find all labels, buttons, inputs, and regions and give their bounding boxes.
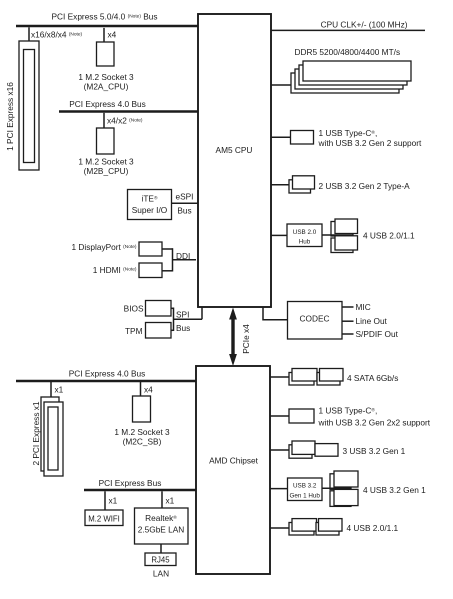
svg-text:with USB 3.2 Gen 2x2 support: with USB 3.2 Gen 2x2 support bbox=[318, 418, 431, 428]
block: RJ45 bbox=[145, 553, 176, 566]
wire: chipset to USB 3.2 hub bbox=[270, 488, 288, 490]
svg-text:SPI: SPI bbox=[176, 309, 189, 319]
wire: Line Out stub bbox=[342, 320, 354, 322]
svg-text:PCI Express 5.0/4.0 (Note) Bus: PCI Express 5.0/4.0 (Note) Bus bbox=[52, 12, 158, 22]
label: eSPI Bus bbox=[176, 192, 194, 216]
svg-text:PCI Express 4.0 Bus: PCI Express 4.0 Bus bbox=[69, 99, 146, 109]
svg-text:PCI Express 4.0 Bus: PCI Express 4.0 Bus bbox=[69, 369, 146, 379]
wire: CPU to USB Type-C bbox=[271, 136, 291, 138]
label: 1 USB Type-C with USB 3.2 Gen 2 bbox=[318, 128, 423, 148]
wire: PCIe x4 link arrow (CPU to chipset) bbox=[229, 308, 237, 367]
block: iTE Super I/O bbox=[128, 190, 172, 220]
label: 1 M.2 Socket 3 (M2A_CPU) bbox=[78, 72, 134, 92]
label: SPI Bus bbox=[176, 309, 190, 333]
svg-text:(M2A_CPU): (M2A_CPU) bbox=[84, 82, 129, 92]
block: USB 3.2 Gen 1 Hub bbox=[288, 478, 323, 501]
wire: CPU CLK line bbox=[271, 29, 425, 31]
wire: chipset to 3 USB 3.2 Gen 1 bbox=[270, 449, 290, 451]
slot: 2 PCI Express x1 bbox=[41, 397, 63, 476]
block: M.2 Socket M2C_SB bbox=[133, 396, 151, 422]
svg-text:Super I/O: Super I/O bbox=[132, 205, 168, 215]
wire: hub to USB 2.0 ports bbox=[322, 234, 354, 236]
wire: hub to USB 3.2 ports bbox=[322, 487, 352, 489]
block: 4 USB 3.2 Gen 1 ports bbox=[330, 471, 358, 506]
block: 3 USB 3.2 Gen 1 ports bbox=[289, 441, 338, 458]
wire: PCI Express bus (chipset lower) bbox=[84, 489, 196, 492]
wire: drop to PCIe x16 slot bbox=[28, 27, 30, 41]
svg-text:DDR5 5200/4800/4400 MT/s: DDR5 5200/4800/4400 MT/s bbox=[295, 47, 401, 57]
svg-text:1 M.2 Socket 3: 1 M.2 Socket 3 bbox=[78, 72, 134, 82]
block: Realtek 2.5GbE LAN bbox=[135, 508, 189, 544]
wire: CPU to USB 2.0 hub bbox=[271, 234, 287, 236]
svg-text:Gen 1 Hub: Gen 1 Hub bbox=[289, 492, 320, 499]
svg-text:with USB 3.2 Gen 2 support: with USB 3.2 Gen 2 support bbox=[318, 138, 423, 148]
svg-text:BIOS: BIOS bbox=[124, 304, 144, 314]
svg-text:1 M.2 Socket 3: 1 M.2 Socket 3 bbox=[78, 157, 134, 167]
svg-text:RJ45: RJ45 bbox=[151, 555, 170, 564]
block: 4 USB 2.0/1.1 ports (chipset) bbox=[289, 519, 342, 535]
label: 1 USB Type-C with USB 3.2 Gen 2x2 bbox=[318, 405, 431, 427]
svg-text:x1: x1 bbox=[109, 496, 118, 506]
block: USB Type-C port (CPU) bbox=[291, 131, 314, 145]
svg-text:1 M.2 Socket 3: 1 M.2 Socket 3 bbox=[114, 427, 170, 437]
svg-text:4 USB 2.0/1.1: 4 USB 2.0/1.1 bbox=[363, 231, 415, 241]
svg-text:USB 3.2: USB 3.2 bbox=[293, 483, 317, 490]
wire: MIC stub bbox=[342, 306, 354, 308]
block: 4 USB 2.0/1.1 ports bbox=[331, 219, 358, 253]
block: M.2 WIFI bbox=[85, 510, 123, 526]
svg-text:Hub: Hub bbox=[299, 238, 311, 245]
block: BIOS bbox=[146, 301, 172, 317]
svg-text:AMD Chipset: AMD Chipset bbox=[209, 455, 259, 465]
svg-text:CODEC: CODEC bbox=[300, 314, 330, 324]
svg-text:(M2C_SB): (M2C_SB) bbox=[123, 437, 162, 447]
block: USB 2.0 Hub bbox=[287, 224, 322, 247]
svg-text:1 PCI Express x16: 1 PCI Express x16 bbox=[5, 82, 15, 151]
svg-text:1 USB Type-C®,: 1 USB Type-C®, bbox=[319, 405, 378, 415]
wire: DDI bracket bbox=[162, 248, 196, 271]
label: 1 M.2 Socket 3 (M2B_CPU) bbox=[78, 157, 134, 177]
svg-text:x4: x4 bbox=[144, 385, 153, 395]
block: USB Type-C port (chipset) bbox=[289, 409, 314, 423]
block: M.2 Socket M2B_CPU bbox=[97, 128, 115, 154]
svg-text:1 USB Type-C®,: 1 USB Type-C®, bbox=[319, 128, 378, 138]
svg-text:3 USB 3.2 Gen 1: 3 USB 3.2 Gen 1 bbox=[343, 446, 406, 456]
label: iTE Super I/O bbox=[132, 194, 168, 216]
block: DisplayPort connector bbox=[139, 242, 162, 256]
wire: drop to PCIe x1 slots bbox=[50, 382, 52, 398]
block: CODEC bbox=[288, 302, 343, 340]
wire: PCIe 5.0/4.0 bus (CPU top bus) bbox=[16, 25, 198, 28]
wire: CPU to CODEC bbox=[263, 307, 288, 320]
svg-text:2 USB 3.2 Gen 2 Type-A: 2 USB 3.2 Gen 2 Type-A bbox=[319, 181, 411, 191]
svg-text:LAN: LAN bbox=[153, 568, 169, 578]
block: AMD Chipset bbox=[196, 366, 270, 574]
slot: PCI Express x16 bbox=[19, 41, 39, 170]
block: AM5 CPU bbox=[198, 14, 271, 307]
svg-text:Bus: Bus bbox=[177, 205, 191, 215]
wire: drop to M2C socket bbox=[140, 382, 142, 397]
label: 1 M.2 Socket 3 (M2C_SB) bbox=[114, 427, 170, 447]
svg-text:eSPI: eSPI bbox=[176, 192, 194, 202]
wire: Realtek to RJ45 bbox=[160, 544, 162, 554]
block: 2 USB 3.2 Gen 2 Type-A ports bbox=[289, 176, 315, 193]
wire: drop to Realtek LAN bbox=[161, 491, 163, 508]
wire: drop to M2B socket bbox=[103, 113, 105, 128]
block: TPM bbox=[146, 323, 172, 339]
svg-text:CPU CLK+/- (100 MHz): CPU CLK+/- (100 MHz) bbox=[321, 19, 408, 29]
svg-text:TPM: TPM bbox=[125, 326, 143, 336]
block: DDR5 DIMM slots bbox=[291, 61, 411, 93]
svg-text:Bus: Bus bbox=[176, 323, 190, 333]
svg-text:Realtek®: Realtek® bbox=[145, 513, 177, 523]
wire: S/PDIF stub bbox=[342, 333, 354, 335]
wire: chipset to USB 2.0 ports bbox=[270, 527, 290, 529]
svg-text:4 USB 2.0/1.1: 4 USB 2.0/1.1 bbox=[347, 523, 399, 533]
wire: eSPI bus bbox=[172, 202, 199, 204]
svg-text:DDI: DDI bbox=[176, 251, 190, 261]
wire: chipset to SATA ports bbox=[270, 376, 290, 378]
wire: PCIe 4.0 bus (chipset) bbox=[16, 380, 196, 383]
svg-text:(M2B_CPU): (M2B_CPU) bbox=[84, 166, 129, 176]
svg-text:M.2 WIFI: M.2 WIFI bbox=[88, 515, 120, 524]
wire: CPU to USB 3.2 Gen 2 ports bbox=[271, 184, 289, 186]
svg-text:USB 2.0: USB 2.0 bbox=[293, 229, 317, 236]
svg-text:4 SATA 6Gb/s: 4 SATA 6Gb/s bbox=[347, 373, 398, 383]
svg-text:AM5 CPU: AM5 CPU bbox=[216, 145, 253, 155]
wire: SPI bus bracket bbox=[171, 307, 202, 331]
svg-text:4 USB 3.2 Gen 1: 4 USB 3.2 Gen 1 bbox=[363, 485, 426, 495]
wire: CPU to DDR5 bbox=[271, 84, 292, 86]
wire: drop to M.2 WIFI bbox=[104, 491, 106, 510]
svg-text:x1: x1 bbox=[166, 496, 175, 506]
svg-text:S/PDIF Out: S/PDIF Out bbox=[356, 329, 399, 339]
svg-text:PCI Express Bus: PCI Express Bus bbox=[99, 478, 162, 488]
block: HDMI connector bbox=[139, 263, 162, 278]
svg-text:x4: x4 bbox=[108, 30, 117, 40]
svg-text:x1: x1 bbox=[55, 385, 64, 395]
svg-text:2.5GbE LAN: 2.5GbE LAN bbox=[138, 525, 185, 535]
wire: chipset to USB Type-C bbox=[270, 415, 290, 417]
wire: PCIe 4.0 bus (CPU) bbox=[59, 110, 198, 113]
svg-text:PCIe x4: PCIe x4 bbox=[241, 324, 251, 354]
svg-text:2 PCI Express x1: 2 PCI Express x1 bbox=[31, 401, 41, 465]
svg-text:Line Out: Line Out bbox=[356, 316, 388, 326]
block: M.2 Socket M2A_CPU bbox=[97, 42, 115, 66]
wire: drop to M2A socket bbox=[103, 28, 105, 42]
svg-text:MIC: MIC bbox=[356, 302, 371, 312]
block: 4 SATA ports bbox=[289, 369, 343, 386]
